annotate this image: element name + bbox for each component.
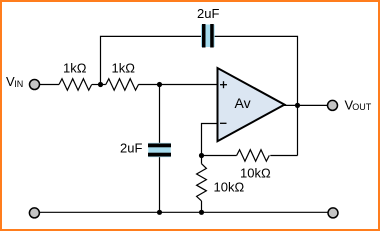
svg-text:10kΩ: 10kΩ	[240, 166, 271, 181]
svg-text:2uF: 2uF	[197, 6, 219, 21]
svg-text:1kΩ: 1kΩ	[112, 61, 136, 76]
svg-text:IN: IN	[14, 79, 23, 89]
svg-text:2uF: 2uF	[120, 141, 142, 156]
svg-text:OUT: OUT	[352, 102, 372, 112]
svg-text:1kΩ: 1kΩ	[63, 61, 87, 76]
svg-text:10kΩ: 10kΩ	[214, 180, 245, 195]
svg-text:Av: Av	[235, 95, 251, 111]
